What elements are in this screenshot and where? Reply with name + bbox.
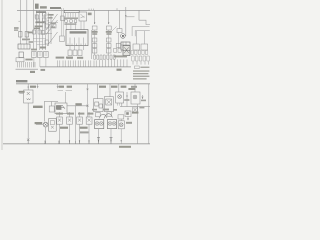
- label right of SB3: [139, 107, 144, 109]
- wire LH1 to GB1: [121, 103, 123, 107]
- label right of F1F2: [28, 32, 33, 34]
- fuse strip box: [64, 10, 79, 12]
- wire X1 down from RLY2: [27, 103, 29, 144]
- fuse strip pins: [66, 13, 76, 18]
- small note near connector: [29, 41, 33, 43]
- CB2 inner mark: [126, 112, 129, 115]
- label under V1 row2: [92, 33, 97, 35]
- label above fuse bus: [35, 4, 39, 9]
- pre-arc label a: [92, 109, 97, 111]
- bus rung lower: [37, 44, 46, 46]
- inline fuse FB: [43, 18, 47, 22]
- HL1 bulb a circle: [95, 122, 99, 126]
- V2 wire mid: [108, 30, 110, 55]
- header label top: [50, 7, 61, 9]
- twin feed wire T2: [62, 8, 64, 36]
- small box AB1: [96, 112, 101, 116]
- fuse F3: [35, 15, 38, 19]
- terminal row TR2: [107, 55, 115, 59]
- fuse F2: [25, 32, 28, 38]
- pre-relay note: [40, 47, 46, 49]
- stub drop S-b: [57, 84, 58, 88]
- right arrow mark: [142, 95, 143, 99]
- connector C201 pins: [21, 44, 27, 49]
- lamp housing LH2: [131, 92, 140, 104]
- inter-wire note: [22, 39, 30, 41]
- wire W3 from top edge: [33, 0, 35, 50]
- marker lamp box ML1: [57, 117, 63, 124]
- fuse ladder rungs: [35, 15, 41, 21]
- ground wire G1: [98, 129, 100, 144]
- arrow on riser R1: [48, 20, 49, 22]
- wire label on output: [75, 103, 81, 105]
- bottom border ground bus: [3, 143, 150, 145]
- label under outputs: [67, 57, 73, 59]
- wire from L2 down: [45, 127, 47, 144]
- crossover wire D1: [46, 14, 58, 30]
- LH2 bulb cross: [134, 96, 137, 99]
- HL2 bulb b: [113, 122, 116, 125]
- bus side label b: [48, 17, 53, 19]
- crossover wire D3: [47, 32, 58, 46]
- relay block RB1 inner: [121, 42, 130, 49]
- LH2 bulb: [133, 95, 137, 99]
- M1 inner mark: [122, 35, 124, 37]
- ignition switch box: [79, 12, 87, 21]
- pin tick row mid group: [83, 60, 96, 66]
- inter-lamp tick label: [124, 99, 129, 101]
- pre-arc label c: [113, 109, 117, 111]
- side marker connector box: [118, 115, 124, 119]
- relay box RLY3: [104, 97, 113, 112]
- drop wire V2: [108, 10, 110, 24]
- side marker bulb cross: [120, 123, 123, 126]
- horizontal bus HB1: [44, 101, 58, 103]
- label under border b: [59, 86, 64, 88]
- label under main bar left: [41, 69, 46, 71]
- V2 lower box b: [106, 44, 111, 48]
- legend row 5: [133, 78, 147, 79]
- splice tick on HF: [87, 88, 89, 90]
- lamp L2 cross: [44, 123, 47, 126]
- tick marks on bottom bus: [28, 141, 111, 144]
- headlight unit HL1: [95, 120, 104, 129]
- tick row under TR5: [133, 61, 149, 64]
- connector V2 box: [106, 26, 111, 30]
- section title text: [16, 80, 27, 82]
- label under border g: [128, 88, 135, 90]
- ground symbol G2: [110, 138, 113, 141]
- terminal row TR1: [94, 55, 106, 59]
- side marker feed: [120, 119, 122, 121]
- HL1 bulb a: [96, 122, 99, 125]
- K3 output wire: [39, 58, 41, 67]
- feed wire label: [19, 91, 25, 93]
- label under V2: [106, 31, 112, 33]
- splice mark on X1: [27, 139, 29, 141]
- L2 housing inner cross: [51, 126, 54, 129]
- relay box RLY2: [24, 90, 33, 103]
- bottom section top border bus: [16, 83, 150, 85]
- label near risers: [50, 22, 55, 24]
- legend row 4: [133, 76, 149, 77]
- riser wire R1: [47, 13, 49, 47]
- step wire RF2: [139, 20, 150, 24]
- component box RC2: [141, 44, 148, 50]
- side marker bulb: [119, 123, 123, 127]
- relay block RB1: [121, 42, 130, 50]
- drop wire X4: [97, 84, 99, 99]
- side marker ground wire: [120, 129, 122, 144]
- ML4 bulb cross: [88, 119, 91, 122]
- L2 feed label: [35, 122, 43, 124]
- crossover wire D2: [46, 20, 58, 35]
- connector C201 block: [18, 44, 30, 49]
- bus labels smudge: [35, 22, 45, 24]
- cluster inner marks: [123, 47, 130, 53]
- label row above pins: [56, 57, 65, 59]
- label under border d: [99, 86, 106, 88]
- FB2 inner fuse b: [99, 104, 102, 108]
- drop wire X3: [51, 102, 53, 107]
- lamp L2 with label: [43, 122, 48, 127]
- left bus wire B5: [43, 14, 45, 30]
- extra top label right: [131, 86, 137, 88]
- headlight unit HL2: [107, 120, 116, 129]
- output connector b: [73, 50, 77, 56]
- switch feed riser: [65, 92, 67, 103]
- wire label above bottom bus: [80, 131, 89, 133]
- label under ML row b: [80, 127, 88, 129]
- twin feed wire T1: [61, 8, 63, 36]
- strip-to-JB1 wires: [66, 22, 75, 29]
- switch inner label block: [56, 105, 61, 109]
- relay box RB0: [52, 24, 56, 28]
- splice box SB3 cross: [134, 108, 137, 111]
- wire label row LBL1: [56, 113, 63, 115]
- switch output wire: [67, 105, 88, 107]
- mid wire M2: [91, 30, 93, 59]
- left bus wire B4: [45, 12, 47, 50]
- fuse F1: [19, 32, 22, 38]
- ML2 bulb cross: [68, 119, 71, 122]
- pin tick group far right: [114, 59, 127, 66]
- ignition-to-JB1 wires: [81, 21, 84, 30]
- arrow RF1: [125, 15, 126, 17]
- M3 feed wire: [117, 32, 119, 48]
- right feed wire RF2: [138, 10, 140, 20]
- label under border f: [121, 86, 127, 88]
- drop wire X2: [44, 102, 46, 122]
- JB1 bottom pin hatch: [68, 44, 86, 46]
- HL2 bulb a: [109, 122, 112, 125]
- pin row P1: [18, 62, 36, 67]
- M3 upper box: [116, 43, 120, 47]
- HL1 bulb b: [100, 122, 103, 125]
- right mark label: [141, 100, 146, 102]
- component box RC1: [133, 44, 139, 50]
- border ticks mid: [89, 9, 93, 11]
- drop wire X6: [118, 84, 120, 92]
- left connector bar: [16, 68, 39, 70]
- JB1 internal feeds: [70, 38, 84, 46]
- terminal sq TB: [118, 48, 121, 52]
- inter-lamp wire: [126, 92, 128, 107]
- relay K2: [32, 52, 37, 58]
- bus tie line: [33, 38, 46, 40]
- spare wire X8: [75, 106, 77, 144]
- relay K1 box: [19, 52, 23, 58]
- margin note row2: [14, 29, 18, 30]
- label under outputs 2: [77, 57, 83, 59]
- drop wire X5: [109, 87, 111, 96]
- side marker label: [126, 122, 132, 124]
- inline connector box b: [70, 20, 73, 23]
- HL2 bulb b circle: [112, 122, 116, 126]
- HL1 bulb b circle: [99, 122, 103, 126]
- K4 inner: [45, 53, 47, 55]
- motor M1: [121, 34, 126, 39]
- arrow V2: [108, 23, 109, 25]
- ignition switch label: [88, 13, 92, 16]
- terminal sq TA: [114, 48, 117, 52]
- legend row 2: [133, 70, 149, 71]
- right edge wire RE1: [148, 84, 150, 144]
- stub drop S-a: [37, 84, 38, 88]
- diode block D4: [46, 24, 49, 28]
- K2 inner: [33, 53, 35, 55]
- JB1 output wires: [70, 46, 84, 50]
- pin tick row right group: [100, 59, 112, 66]
- headlamp feed wire HF: [87, 84, 89, 117]
- label under border c: [67, 86, 72, 88]
- arrow on inter-lamp wire: [126, 96, 127, 98]
- wire label row LBL3: [78, 113, 84, 115]
- label right of box: [25, 59, 32, 61]
- arrowheads at bottom bus: [69, 140, 112, 142]
- connector box on X3: [49, 106, 54, 112]
- wire label row LBL4: [87, 113, 93, 115]
- wire label row LBL2: [67, 113, 74, 115]
- diode block D5: [45, 40, 48, 44]
- border tick T117: [116, 8, 118, 10]
- K3 inner: [39, 53, 41, 55]
- V1 wire mid: [94, 30, 96, 55]
- junction box J1: [60, 36, 65, 42]
- small box AB2: [107, 112, 112, 116]
- wire RV2: [143, 31, 145, 44]
- side marker arrow: [121, 140, 122, 142]
- arrow on X1: [28, 87, 29, 89]
- inline fuse F7: [61, 16, 65, 21]
- bus smudge extra: [34, 28, 40, 30]
- RLY2 coil squiggle: [27, 99, 31, 100]
- L2 housing inner box: [50, 121, 54, 125]
- branch from RF1: [126, 16, 135, 18]
- V2 lower box c: [106, 49, 111, 53]
- bus labels smudge2: [35, 26, 43, 28]
- relay K3: [38, 52, 43, 58]
- legend key box: [135, 66, 140, 69]
- tick on W1: [18, 20, 20, 22]
- feed wire into RLY2: [19, 93, 23, 95]
- V1 lower box c: [92, 49, 97, 53]
- LH1 bulb cross: [118, 95, 121, 98]
- connector label 656 left: [30, 71, 35, 73]
- crossover arc wire A2: [104, 114, 112, 119]
- wire W2 from top edge: [26, 0, 28, 44]
- lamp L2 housing: [49, 119, 57, 132]
- label under border e: [111, 86, 117, 88]
- label under connectors: [64, 23, 76, 24]
- relay K4: [44, 52, 49, 58]
- LH1 bottom pins: [118, 103, 122, 106]
- junction box JB1: [66, 30, 88, 46]
- ground bus GB1: [120, 106, 150, 108]
- tangle rail lower: [42, 33, 52, 35]
- top border bus (hot feed): [17, 9, 150, 11]
- wire W1 from top edge: [19, 0, 21, 44]
- fuse box FB2: [94, 99, 103, 112]
- ignition switch contacts: [81, 14, 85, 18]
- legend row 3: [133, 73, 148, 74]
- margin note text: [14, 27, 19, 29]
- stub drop S-d: [109, 84, 111, 88]
- feed wires to marker lamps: [60, 112, 90, 117]
- inline connector boxes row: [65, 20, 68, 23]
- RLY2 lamp element: [27, 92, 30, 95]
- stub label line S-b: [66, 90, 72, 92]
- ground wire G2: [110, 129, 112, 144]
- branch rail: [48, 22, 58, 24]
- pin label row: [64, 18, 78, 19]
- label under border a: [30, 86, 36, 88]
- pre-arc label b: [103, 109, 109, 111]
- connector V3 box: [117, 29, 122, 33]
- terminal row TR4 upper right: [131, 50, 148, 54]
- arrow V1: [94, 23, 95, 25]
- stub label line S-a: [58, 90, 63, 92]
- drop wire V3: [119, 10, 121, 28]
- diagonal tap wire: [112, 27, 117, 32]
- label under ML row a: [60, 127, 68, 129]
- bus labels smudge3: [36, 11, 46, 13]
- wire code text row right: [114, 55, 127, 57]
- JB1 title smudge: [70, 31, 87, 33]
- terminal row TR5 lower right: [132, 56, 150, 61]
- connector label 656 right: [117, 69, 122, 71]
- page background: [0, 0, 150, 150]
- label left of X2: [33, 106, 43, 108]
- left bus wire B1: [36, 10, 38, 50]
- label under V2 row2: [106, 33, 111, 35]
- riser wire R2: [50, 14, 52, 44]
- wire LH2 to GB1: [137, 104, 139, 144]
- CB2 tail wire: [127, 117, 128, 121]
- connector body box left: [16, 58, 24, 62]
- K4 output wire: [45, 58, 47, 67]
- label under V1: [92, 31, 98, 33]
- headlight switch box: [55, 103, 67, 114]
- FB2 inner fuse a: [95, 102, 99, 106]
- crossover arc wire A1: [99, 114, 107, 118]
- drop wire X7: [134, 84, 136, 92]
- HL2 bulb a circle: [108, 122, 112, 126]
- lamp housing LH1: [116, 92, 124, 103]
- pin tick row left group: [58, 60, 81, 66]
- wire RV1: [135, 31, 137, 44]
- marker lamp box ML3: [77, 117, 83, 124]
- connector V1 box: [92, 26, 97, 30]
- ML3 bulb cross: [78, 119, 81, 122]
- inline fuse FA: [43, 13, 47, 17]
- RLY3 inner cross: [107, 100, 111, 104]
- relay row note: [31, 49, 37, 51]
- output connector c: [78, 50, 82, 56]
- label row above pins 2: [66, 57, 73, 59]
- fuse row F6: [42, 31, 45, 35]
- marker lamp box ML4: [86, 117, 92, 124]
- splice S2 on HF: [86, 105, 88, 107]
- L2 feed label wire: [36, 124, 43, 126]
- K2 output wire: [33, 58, 35, 67]
- ML1 bulb cross: [58, 119, 61, 122]
- main drop wire X1: [27, 84, 29, 90]
- left bus wire B2: [39, 10, 41, 50]
- fuse row F5: [38, 30, 41, 34]
- V1 lower box a: [92, 38, 97, 42]
- splice box SB3: [133, 107, 138, 112]
- drop wire V1: [94, 10, 96, 24]
- fuse row F4: [33, 30, 36, 34]
- right feed wire RF1: [125, 7, 127, 36]
- legend row 1 text: [140, 67, 149, 68]
- arrow on B4: [45, 23, 46, 25]
- ground symbol G1: [97, 138, 100, 141]
- dense cluster blob: [123, 46, 130, 56]
- control unit box outline: [132, 27, 150, 37]
- marker lamp box ML2: [67, 117, 73, 124]
- switch inner marks: [57, 105, 66, 110]
- main connector bar: [40, 66, 131, 68]
- LH1 bulb: [118, 95, 122, 99]
- page number label: [119, 146, 131, 148]
- label near risers 2: [50, 26, 55, 28]
- V2 lower box a: [106, 38, 111, 42]
- label 30A: [40, 6, 47, 8]
- ground wires from marker lamps: [60, 124, 90, 144]
- RLY3 inner box: [106, 99, 112, 105]
- inline connector box c: [74, 20, 77, 23]
- bus rung upper: [34, 41, 43, 43]
- page binding edge line: [1, 0, 3, 150]
- side marker lamp housing: [118, 121, 124, 129]
- CB2 label: [132, 112, 138, 114]
- V1 lower box b: [92, 44, 97, 48]
- output connector a: [68, 50, 72, 56]
- left bus wire B3: [42, 12, 44, 50]
- bus side label a: [48, 14, 54, 16]
- connector box CB2: [125, 111, 131, 117]
